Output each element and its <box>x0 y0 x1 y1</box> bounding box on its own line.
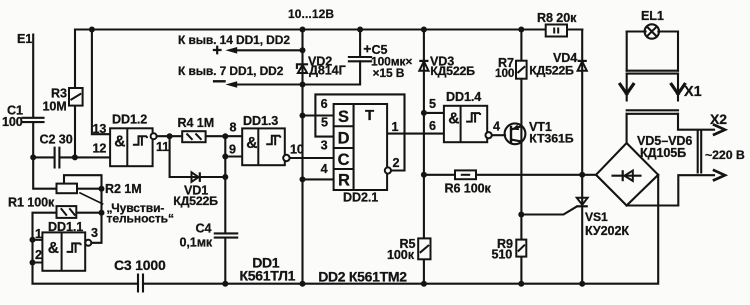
svg-text:D: D <box>338 129 350 147</box>
svg-text:КУ202К: КУ202К <box>585 224 629 238</box>
svg-text:DD1.4: DD1.4 <box>446 90 481 104</box>
svg-text:6: 6 <box>429 119 436 133</box>
svg-text:тельность“: тельность“ <box>107 212 174 226</box>
svg-text:13: 13 <box>93 122 107 136</box>
svg-text:К561ТЛ1: К561ТЛ1 <box>240 267 296 283</box>
svg-text:4: 4 <box>321 162 328 176</box>
svg-text:8: 8 <box>230 121 237 135</box>
svg-text:T: T <box>365 107 374 124</box>
svg-text:R3: R3 <box>51 87 67 101</box>
svg-text:C: C <box>338 151 350 169</box>
svg-text:R: R <box>338 171 350 189</box>
svg-text:КД522Б: КД522Б <box>173 194 218 208</box>
svg-text:10M: 10M <box>43 100 67 114</box>
svg-text:R2 1M: R2 1M <box>105 182 142 196</box>
svg-text:R6 100к: R6 100к <box>445 181 492 195</box>
svg-text:DD2.1: DD2.1 <box>343 191 378 205</box>
svg-text:1: 1 <box>35 227 42 241</box>
svg-text:Д814Г: Д814Г <box>309 64 346 78</box>
svg-text:9: 9 <box>229 143 236 157</box>
svg-text:R8 20к: R8 20к <box>537 11 577 25</box>
svg-text:2: 2 <box>35 248 42 262</box>
svg-text:DD1.3: DD1.3 <box>243 114 278 128</box>
svg-text:DD2 К561ТМ2: DD2 К561ТМ2 <box>318 268 407 284</box>
svg-text:DD1.2: DD1.2 <box>112 113 147 127</box>
svg-text:КД522Б: КД522Б <box>529 63 574 77</box>
svg-text:EL1: EL1 <box>641 9 664 23</box>
svg-text:S: S <box>338 108 349 126</box>
svg-text:3: 3 <box>91 226 98 240</box>
svg-text:×15 В: ×15 В <box>373 66 405 80</box>
svg-text:11: 11 <box>156 140 169 154</box>
svg-text:&: & <box>48 240 59 257</box>
svg-text:&: & <box>114 134 125 151</box>
svg-text:10: 10 <box>290 143 304 157</box>
svg-text:4: 4 <box>493 119 500 133</box>
svg-text:DD1.1: DD1.1 <box>48 220 83 234</box>
svg-text:12: 12 <box>93 141 107 155</box>
svg-text:0,1мк: 0,1мк <box>180 236 213 250</box>
svg-text:1: 1 <box>392 120 399 134</box>
svg-text:КД522Б: КД522Б <box>430 64 475 78</box>
svg-text:E1: E1 <box>17 32 32 46</box>
svg-text:~220 В: ~220 В <box>705 148 745 162</box>
svg-text:510: 510 <box>492 248 513 262</box>
svg-text:C2 30: C2 30 <box>40 133 73 147</box>
svg-text:С3 1000: С3 1000 <box>114 257 166 273</box>
svg-text:VS1: VS1 <box>585 210 608 224</box>
svg-text:X1: X1 <box>684 84 702 100</box>
svg-text:6: 6 <box>321 97 328 111</box>
svg-text:КД105Б: КД105Б <box>640 146 686 160</box>
svg-text:R1 100к: R1 100к <box>8 196 55 210</box>
svg-text:&: & <box>246 135 257 152</box>
svg-text:R4 1M: R4 1M <box>178 116 215 130</box>
svg-text:3: 3 <box>321 139 328 153</box>
svg-text:X2: X2 <box>710 111 727 127</box>
svg-text:100к: 100к <box>387 248 415 262</box>
svg-text:К выв. 7 DD1, DD2: К выв. 7 DD1, DD2 <box>178 64 284 78</box>
svg-text:5: 5 <box>321 115 328 129</box>
svg-text:К выв. 14 DD1, DD2: К выв. 14 DD1, DD2 <box>178 33 290 47</box>
svg-text:100: 100 <box>2 115 23 129</box>
svg-text:10...12В: 10...12В <box>288 7 334 21</box>
svg-text:2: 2 <box>393 156 400 170</box>
svg-text:&: & <box>448 111 459 128</box>
svg-text:100: 100 <box>495 66 515 80</box>
svg-text:C4: C4 <box>196 222 212 236</box>
svg-text:5: 5 <box>429 97 436 111</box>
svg-text:КТ361Б: КТ361Б <box>529 131 574 145</box>
